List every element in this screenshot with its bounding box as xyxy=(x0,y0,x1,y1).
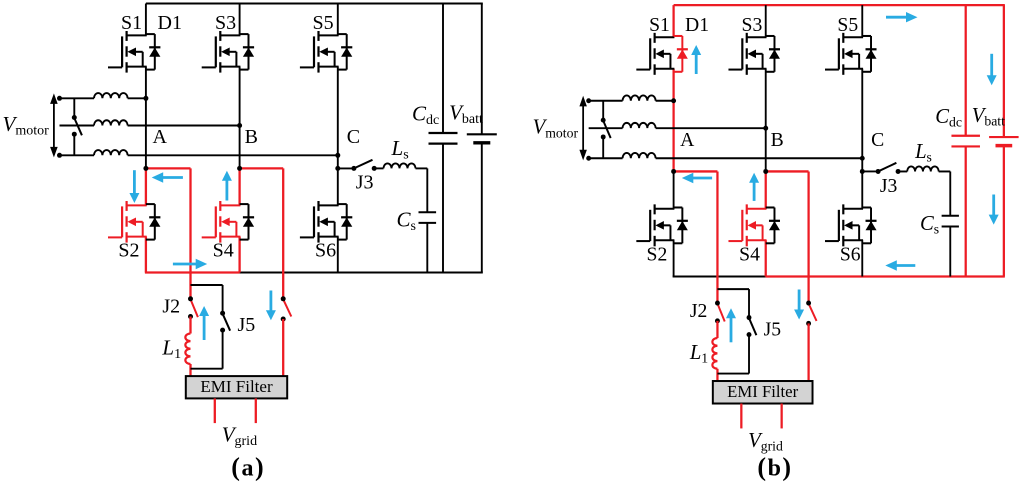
wire motor switch lower stub xyxy=(602,137,604,158)
current arrow up at J2 (b) xyxy=(730,316,733,342)
wire motor phase 3 to node C xyxy=(656,157,863,159)
wire Ls to corner xyxy=(416,167,428,169)
transistor S5 (MOSFET body) xyxy=(300,31,339,73)
svg-text:B: B xyxy=(771,129,784,151)
svg-text:Cs: Cs xyxy=(920,211,939,238)
node dot leg B tap xyxy=(237,166,242,171)
transistor S3 (MOSFET body) xyxy=(728,33,766,75)
wire motor phase 1 left segment xyxy=(589,100,623,102)
body diode of S5 xyxy=(338,34,353,70)
capacitor Cdc a xyxy=(429,132,458,134)
wire node B tap horizontal b xyxy=(766,170,809,172)
inductor Ls xyxy=(907,166,938,171)
svg-text:S5: S5 xyxy=(313,12,334,34)
inductor motor winding 2 xyxy=(94,120,128,125)
svg-text:Cdc: Cdc xyxy=(935,104,962,131)
svg-text:A: A xyxy=(680,129,695,151)
wire J2 branch vertical a xyxy=(189,168,191,298)
svg-text:S1: S1 xyxy=(121,12,142,34)
wire Vbatt branch upper b xyxy=(1003,5,1005,137)
node dot leg C J3 tap xyxy=(335,166,340,171)
switch J5 xyxy=(749,318,756,335)
body diode of S2 xyxy=(674,207,688,243)
wire bottom DC- rail right section b xyxy=(766,275,1005,277)
current arrow down at node A (a) xyxy=(133,170,136,195)
svg-text:S1: S1 xyxy=(649,14,670,36)
inductor motor winding 2 xyxy=(623,123,656,128)
body diode of S3 xyxy=(766,36,780,72)
diagram (b): discharging-mode schematic xyxy=(533,5,1019,454)
switch J2 xyxy=(191,299,198,317)
wire node C to J3 xyxy=(338,167,354,169)
wire top DC+ rail b xyxy=(674,4,1005,6)
svg-text:S4: S4 xyxy=(213,240,234,262)
wire J3 to Ls xyxy=(898,170,907,172)
capacitor Cs xyxy=(942,215,959,217)
inductor motor winding 3 xyxy=(94,150,128,155)
transistor S4 (MOSFET body) xyxy=(728,204,766,246)
wire node A to J2 branch horizontal a xyxy=(146,167,191,169)
svg-text:Vgrid: Vgrid xyxy=(222,423,257,450)
current arrow left on bottom rail (b) xyxy=(895,264,916,267)
svg-text:Vbatt: Vbatt xyxy=(449,101,483,128)
wire bottom DC- rail left section b xyxy=(673,275,766,277)
wire grid return branch vertical upper a xyxy=(282,168,284,298)
wire motor phase 2 left segment xyxy=(60,125,95,127)
svg-text:C: C xyxy=(347,126,360,148)
wire J5 branch top horizontal xyxy=(191,284,223,286)
wire motor phase 1 to leg A xyxy=(656,100,674,102)
body diode of S3 xyxy=(240,34,255,70)
node A dot (tap) xyxy=(143,166,148,171)
wire node B tap horizontal a xyxy=(240,167,284,169)
current arrow up at D1 (b) xyxy=(695,53,698,74)
wire leg A from node A to S2 drain a xyxy=(145,168,147,205)
wire Cs to bottom rail xyxy=(949,226,951,276)
wire leg C S6 source to rail a xyxy=(337,237,339,273)
node dot leg C phase connection xyxy=(860,156,865,161)
wire L1 to EMI filter b xyxy=(716,369,718,381)
svg-text:J3: J3 xyxy=(880,175,898,197)
wire leg A S2 source to rail b xyxy=(673,240,675,276)
inductor L1 xyxy=(712,338,717,369)
wire Vbatt branch lower a xyxy=(481,143,483,273)
svg-text:S6: S6 xyxy=(840,243,861,265)
node dot leg B tap xyxy=(763,169,768,174)
svg-text:J2: J2 xyxy=(162,296,180,318)
svg-text:S3: S3 xyxy=(742,14,763,36)
EMI filter box xyxy=(186,376,287,398)
svg-text:S4: S4 xyxy=(739,243,760,265)
EMI filter box xyxy=(713,381,813,403)
svg-text:S6: S6 xyxy=(315,240,336,262)
transistor S3 (MOSFET body) xyxy=(202,31,241,73)
wire node C to J3 xyxy=(862,170,878,172)
svg-text:S5: S5 xyxy=(837,14,858,36)
svg-text:L1: L1 xyxy=(161,336,181,363)
wire bottom DC- rail right section a xyxy=(240,272,483,274)
node B dot phase connection xyxy=(237,123,242,128)
wire Cs to bottom rail xyxy=(426,223,428,273)
transistor S5 (MOSFET body) xyxy=(825,33,863,75)
switch motor winding reconfiguration xyxy=(603,121,610,138)
switch J5 xyxy=(223,314,231,331)
svg-text:J3: J3 xyxy=(356,172,374,194)
svg-text:(a): (a) xyxy=(231,453,265,482)
current arrow down at grid return switch (b) xyxy=(798,290,801,312)
switch J3 xyxy=(351,160,376,171)
body diode of S5 xyxy=(862,36,876,72)
body diode of S4 xyxy=(766,207,780,243)
wire Cdc branch upper a xyxy=(442,4,444,134)
inductor motor winding 3 xyxy=(623,153,656,158)
wire leg B S4 source to rail a xyxy=(238,237,240,273)
body diode of S6 xyxy=(862,207,876,243)
svg-text:(b): (b) xyxy=(757,453,792,482)
svg-text:C: C xyxy=(871,129,884,151)
wire leg C from S5 source to S6 drain b xyxy=(861,69,863,209)
wire leg A S2 source to rail a xyxy=(145,237,147,273)
current arrow right on top rail (b) xyxy=(886,16,908,19)
wire grid stub right a xyxy=(255,398,257,423)
wire motor phase 3 left segment xyxy=(60,154,95,156)
wire motor phase 2 to node B xyxy=(656,127,766,129)
svg-text:Vbatt: Vbatt xyxy=(972,103,1005,130)
wire J2 branch vertical b xyxy=(716,171,718,303)
node dot motor terminal top xyxy=(586,98,591,103)
node dot motor terminal bottom xyxy=(586,156,591,161)
svg-text:S3: S3 xyxy=(215,12,236,34)
svg-text:EMI Filter: EMI Filter xyxy=(727,382,798,401)
node A dot (tap) xyxy=(671,169,676,174)
switch J2 xyxy=(717,304,724,322)
wire motor switch lower stub xyxy=(73,134,75,155)
current arrow left at node A (b) xyxy=(691,177,712,180)
svg-text:Vgrid: Vgrid xyxy=(748,428,783,455)
battery Vbatt b xyxy=(989,136,1018,138)
wire leg C drain of S5 a xyxy=(337,4,339,36)
wire top DC+ rail a xyxy=(146,3,483,5)
wire leg A from S1 source to node A b xyxy=(672,69,674,172)
svg-text:Vmotor: Vmotor xyxy=(533,114,579,141)
voltage arrow Vmotor xyxy=(50,93,58,157)
current arrow up at S4 (b) xyxy=(753,181,756,201)
battery Vbatt a xyxy=(467,133,497,135)
wire J2 to L1 b xyxy=(716,321,718,338)
transistor S1 (MOSFET body) xyxy=(636,33,674,75)
wire grid stub right b xyxy=(781,404,783,429)
body diode of S2 xyxy=(146,204,161,240)
wire J5 branch vertical upper xyxy=(748,289,750,317)
svg-text:EMI Filter: EMI Filter xyxy=(200,377,273,396)
wire J5 branch bottom horizontal xyxy=(191,368,223,370)
svg-text:Cs: Cs xyxy=(397,208,416,235)
wire J5 branch bottom horizontal xyxy=(717,373,749,375)
switch grid return (unlabeled) xyxy=(809,304,817,321)
svg-text:Ls: Ls xyxy=(914,139,932,166)
inductor Ls xyxy=(384,163,416,168)
current arrow down at top right (b) xyxy=(990,54,993,78)
transistor S2 (MOSFET body) xyxy=(108,201,147,243)
wire Cdc branch lower a xyxy=(442,144,444,273)
current arrow down at grid return switch (a) xyxy=(269,291,272,313)
wire L1 to EMI filter a xyxy=(189,364,191,376)
transistor S6 (MOSFET body) xyxy=(300,201,339,243)
wire Vbatt branch lower b xyxy=(1003,146,1005,277)
node dot motor terminal bottom xyxy=(57,153,62,158)
body diode of S4 xyxy=(240,204,255,240)
wire motor phase 3 to node C xyxy=(128,154,338,156)
svg-text:Ls: Ls xyxy=(391,136,409,163)
wire Ls to corner xyxy=(939,170,951,172)
wire J5 branch vertical upper xyxy=(222,285,224,313)
capacitor Cs xyxy=(419,211,437,213)
svg-text:J5: J5 xyxy=(238,314,256,336)
wire grid return branch vertical upper b xyxy=(807,171,809,303)
node dot leg C J3 tap xyxy=(860,169,865,174)
wire Cdc branch upper b xyxy=(965,5,967,136)
svg-text:S2: S2 xyxy=(118,240,139,262)
wire node A to J2 branch horizontal b xyxy=(674,170,718,172)
node dot leg C phase connection xyxy=(335,153,340,158)
transistor S2 (MOSFET body) xyxy=(636,204,674,246)
switch grid return (unlabeled) xyxy=(283,299,291,316)
capacitor Cdc b xyxy=(951,135,980,137)
wire grid return to EMI filter b xyxy=(807,323,809,381)
wire J3 to Ls xyxy=(374,167,383,169)
wire Vbatt branch upper a xyxy=(481,4,483,135)
wire Cdc branch lower b xyxy=(965,146,967,276)
wire Ls corner down to Cs xyxy=(426,168,428,212)
wire motor phase 1 to leg A xyxy=(128,97,146,99)
wire motor phase 2 left segment xyxy=(589,127,623,129)
wire leg B drain of S3 a xyxy=(239,4,241,36)
wire grid stub left b xyxy=(740,404,742,429)
svg-text:L1: L1 xyxy=(689,340,708,367)
transistor S1 (MOSFET body) xyxy=(108,31,147,73)
node dot leg A phase connection xyxy=(671,98,676,103)
wire motor switch upper stub xyxy=(602,101,604,120)
body diode of S6 xyxy=(338,204,353,240)
wire leg B drain of S3 b xyxy=(765,5,767,37)
transistor S6 (MOSFET body) xyxy=(825,204,863,246)
wire Ls corner down to Cs xyxy=(949,171,951,215)
current arrow up at J2 (a) xyxy=(203,314,206,340)
wire motor phase 3 left segment xyxy=(589,157,623,159)
wire grid stub left a xyxy=(214,398,216,423)
wire leg C from S5 source to S6 drain a xyxy=(337,67,339,206)
switch motor winding reconfiguration xyxy=(74,118,82,135)
node dot leg A phase connection xyxy=(143,96,148,101)
wire leg B from S3 source to node B tap b xyxy=(765,69,767,172)
wire motor phase 1 left segment xyxy=(60,97,95,99)
wire leg A drain of S1 b xyxy=(672,5,674,37)
wire leg B tap to S4 drain b xyxy=(765,171,767,208)
diode D1 (body diode of S1) xyxy=(146,34,161,70)
wire J5 branch vertical lower xyxy=(222,330,224,369)
inductor L1 xyxy=(185,334,190,364)
voltage arrow Vmotor xyxy=(579,96,586,161)
svg-text:Vmotor: Vmotor xyxy=(3,112,50,139)
wire leg B tap to S4 drain a xyxy=(238,168,240,205)
inductor motor winding 1 xyxy=(623,95,656,100)
current arrow up at S4 (a) xyxy=(225,179,228,201)
wire motor switch upper stub xyxy=(73,98,75,117)
node B dot phase connection xyxy=(763,126,768,131)
inductor motor winding 1 xyxy=(94,93,128,98)
wire J5 branch top horizontal xyxy=(717,288,749,290)
svg-text:D1: D1 xyxy=(158,12,182,34)
wire leg B S4 source to rail b xyxy=(765,240,767,276)
current arrow down at Vbatt (b) xyxy=(992,195,995,217)
diode D1 (body diode of S1) xyxy=(674,36,688,72)
wire leg A from S1 source to node A a xyxy=(145,67,147,169)
svg-text:Cdc: Cdc xyxy=(412,101,439,128)
wire motor phase 2 to node B xyxy=(128,125,240,127)
wire leg A drain of S1 a xyxy=(145,4,147,36)
wire J2 to L1 a xyxy=(189,317,191,334)
wire grid return to EMI filter a xyxy=(282,319,284,376)
wire leg C S6 source to rail b xyxy=(861,240,863,276)
switch J3 xyxy=(876,163,901,174)
wire leg C drain of S5 b xyxy=(861,5,863,37)
diagram (a): charging-mode schematic xyxy=(3,4,497,450)
svg-text:J2: J2 xyxy=(690,300,707,322)
svg-text:J5: J5 xyxy=(764,318,782,340)
svg-text:S2: S2 xyxy=(647,243,668,265)
wire bottom DC- rail left section a xyxy=(145,271,240,273)
wire J5 branch vertical lower xyxy=(748,335,750,374)
current arrow left at node A (a) xyxy=(161,176,183,179)
transistor S4 (MOSFET body) xyxy=(202,201,241,243)
wire leg B from S3 source to node B tap a xyxy=(239,67,241,169)
svg-text:A: A xyxy=(153,126,168,148)
current arrow right on bottom rail (a) xyxy=(173,263,198,266)
svg-text:D1: D1 xyxy=(685,14,709,36)
svg-text:B: B xyxy=(245,126,258,148)
node dot motor terminal top xyxy=(57,96,62,101)
wire leg A from node A to S2 drain b xyxy=(673,171,675,208)
